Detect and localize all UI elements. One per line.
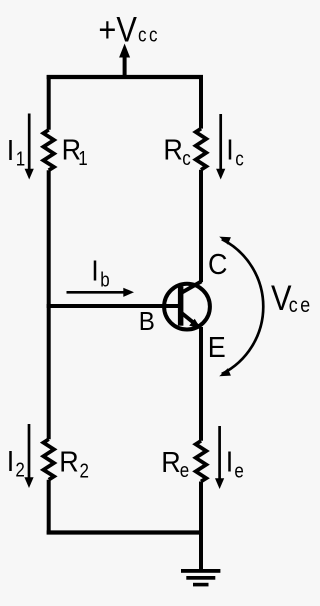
current arrow Ic — [219, 114, 222, 169]
svg-text:c: c — [182, 147, 191, 170]
svg-text:+V: +V — [98, 10, 137, 49]
svg-text:R: R — [163, 133, 182, 165]
svg-text:B: B — [139, 307, 155, 336]
transistor Q1 emitter stroke — [181, 313, 200, 328]
wire base lead — [47, 304, 181, 308]
svg-text:E: E — [208, 331, 226, 363]
Vcc supply arrowhead — [119, 44, 130, 58]
current arrow I1 — [28, 114, 31, 170]
resistor R2 — [43, 439, 54, 480]
svg-text:I: I — [91, 255, 98, 287]
wire top rail — [47, 75, 203, 79]
current arrow I2 — [28, 424, 31, 478]
ground bar 2 — [186, 576, 215, 580]
svg-text:e: e — [180, 458, 189, 481]
svg-text:2: 2 — [80, 459, 89, 482]
label Ic — [226, 134, 233, 166]
transistor Q1 collector stroke — [181, 281, 202, 293]
resistor Rc — [196, 129, 207, 170]
transistor Q1 base bar — [178, 286, 184, 326]
wire left rail middle segment — [47, 170, 51, 439]
Vcc supply arrow stem — [123, 57, 127, 80]
svg-text:I: I — [226, 446, 233, 478]
transistor Q1 circle — [164, 284, 210, 330]
svg-text:R: R — [59, 446, 78, 478]
label R2 — [59, 446, 78, 478]
label Rc — [163, 133, 182, 165]
label Vce — [271, 278, 292, 317]
label C — [208, 248, 227, 280]
resistor Re — [196, 441, 207, 482]
wire right rail upper segment (collector lead) — [199, 75, 203, 129]
ground bar 3 — [193, 583, 209, 587]
wire left rail lower segment — [47, 480, 51, 535]
svg-text:1: 1 — [78, 147, 87, 170]
label Ie — [226, 446, 233, 478]
wire emitter lead down — [199, 327, 203, 441]
label I2 — [7, 445, 14, 477]
wire left rail upper segment — [47, 75, 51, 130]
svg-text:b: b — [100, 268, 109, 291]
current arrow Ie — [218, 426, 221, 479]
wire emitter lead to ground — [199, 482, 203, 572]
label R1 — [62, 134, 81, 166]
svg-text:e: e — [234, 459, 243, 482]
label Re — [161, 446, 180, 478]
svg-text:1: 1 — [16, 147, 25, 170]
label I1 — [7, 134, 14, 166]
Vce arc top arrowhead — [219, 237, 231, 245]
ground bar 1 — [181, 569, 220, 573]
svg-text:2: 2 — [15, 458, 24, 481]
label B — [139, 307, 155, 336]
svg-text:c: c — [235, 147, 244, 170]
svg-text:cc: cc — [138, 23, 160, 46]
current arrow Ib — [67, 291, 125, 294]
svg-text:I: I — [7, 134, 14, 166]
svg-text:I: I — [226, 134, 233, 166]
label +Vcc — [98, 10, 137, 49]
svg-text:R: R — [161, 446, 180, 478]
label E — [208, 331, 226, 363]
wire collector lead to transistor — [199, 170, 203, 282]
label Ib — [91, 255, 98, 287]
svg-text:I: I — [7, 445, 14, 477]
transistor Q1 emitter arrowhead — [189, 319, 201, 329]
svg-text:C: C — [208, 248, 227, 280]
wire bottom rail — [47, 530, 201, 534]
Vce arc bottom arrowhead — [219, 368, 231, 376]
resistor R1 — [43, 130, 54, 171]
svg-text:ce: ce — [289, 293, 313, 317]
Vce arc — [222, 239, 263, 374]
